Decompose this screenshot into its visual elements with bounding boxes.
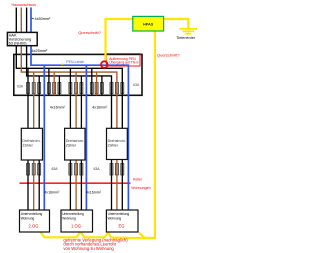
svg-text:Wohnung: Wohnung [21,216,35,220]
svg-text:63A: 63A [133,83,140,87]
svg-text:EG: EG [118,223,124,228]
wire meter1 output L1 [27,160,29,211]
meter 3 box [107,128,128,159]
fuse blocks below meter 2 [69,164,83,176]
label 4x50mm2 [32,17,34,19]
svg-text:4x50mm²: 4x50mm² [35,17,52,21]
wire tap G2 L3 [58,76,60,95]
svg-text:Wohnung: Wohnung [62,216,76,220]
meter cabinet main box [14,54,142,95]
svg-text:PEN-Leiste: PEN-Leiste [66,60,84,64]
wire tap G4 L1 [91,68,93,95]
svg-text:63 (NH00): 63 (NH00) [9,41,28,46]
svg-text:HPAS: HPAS [143,22,154,26]
UV box flat 2.OG [20,210,50,232]
svg-text:63A: 63A [52,167,59,171]
terminal blocks group G4 [90,83,103,94]
wire tap G4 L3 [101,76,103,95]
svg-text:4x16mm²: 4x16mm² [92,106,108,110]
wire tap G1 L3 [38,76,40,128]
UV box flat EG [106,210,138,232]
floor boundary red line [20,182,131,184]
wire meter1 output L2 [33,160,35,211]
wire tap G4 L2 [96,72,98,95]
terminal blocks group G3 [69,83,83,94]
wire meter1 output L3 [38,160,40,211]
svg-text:Wohnungen: Wohnungen [131,186,150,190]
PEN split marker circle [101,61,108,68]
wire meter3 output L2 [116,160,118,211]
UV box flat 1.OG [61,210,93,232]
wire tap G2 L1 [48,68,50,95]
svg-text:2.OG: 2.OG [28,223,38,228]
svg-text:Zähler: Zähler [22,143,33,147]
meter 2 box [65,128,85,160]
wire L3 rail [27,8,112,129]
wire N drop column 1 [43,65,45,210]
wire L2 rail [21,8,117,129]
PE link UV1 to UV2 [40,232,81,238]
svg-text:Zähler: Zähler [108,143,119,147]
wire meter2 output L1 [69,160,71,211]
PEN split annotation red box [106,54,140,66]
HPAS busbar box [133,16,164,31]
svg-text:1.OG: 1.OG [71,223,81,228]
terminal blocks group G2 [47,83,61,94]
svg-text:63A: 63A [94,167,101,171]
wire tap G1 L2 [33,72,35,128]
wire tap G3 L3 [80,76,82,128]
svg-text:4x16mm²: 4x16mm² [86,191,102,195]
svg-text:Wohnung: Wohnung [108,216,122,220]
wire tap G3 L1 [69,68,71,128]
wire L1 rail [16,8,122,129]
wire tap G2 L2 [53,72,55,95]
svg-text:Tiefenerder: Tiefenerder [176,36,195,40]
earth electrode symbol [180,29,198,34]
PE riser HPAS down to flats [154,31,156,238]
svg-text:4x25mm²: 4x25mm² [32,49,49,53]
wire meter2 output L3 [80,160,82,211]
svg-text:63A: 63A [17,85,24,89]
svg-text:Querschnitt?: Querschnitt? [157,52,180,57]
svg-text:von Wohnung zu Wohnung: von Wohnung zu Wohnung [63,246,114,251]
terminal blocks group G1 [27,83,41,94]
wire N drop column 2 [85,65,87,210]
PE link UV3 to riser [112,233,157,238]
PE link UV2 to UV3 [81,232,112,238]
svg-text:Zähler: Zähler [66,143,77,147]
meter 1 box [21,128,42,160]
junction dot on PEN bus [62,63,64,65]
wire tap G1 L1 [27,68,29,128]
svg-text:4x16mm²: 4x16mm² [50,106,66,110]
wire PEN busbar [31,8,128,211]
svg-text:Übergang auf TN-S: Übergang auf TN-S [109,60,139,64]
fuse blocks below meter 3 [110,164,124,176]
wire meter3 output L3 [121,160,123,211]
svg-text:4x16mm²: 4x16mm² [44,191,60,195]
HAK box [7,32,37,45]
fuse blocks below meter 1 [27,164,41,176]
terminal blocks group G5 [110,83,124,94]
wire tap G3 L2 [75,72,77,128]
wire meter3 output L1 [111,160,113,211]
PE wire from PEN split to HPAS [106,19,133,60]
svg-text:Querschnitt?: Querschnitt? [78,30,101,35]
svg-text:Keller: Keller [133,178,143,182]
PE wire HPAS to earth electrode [164,19,189,29]
wire meter2 output L2 [75,160,77,211]
svg-text:Hausanschluss: Hausanschluss [12,3,37,7]
